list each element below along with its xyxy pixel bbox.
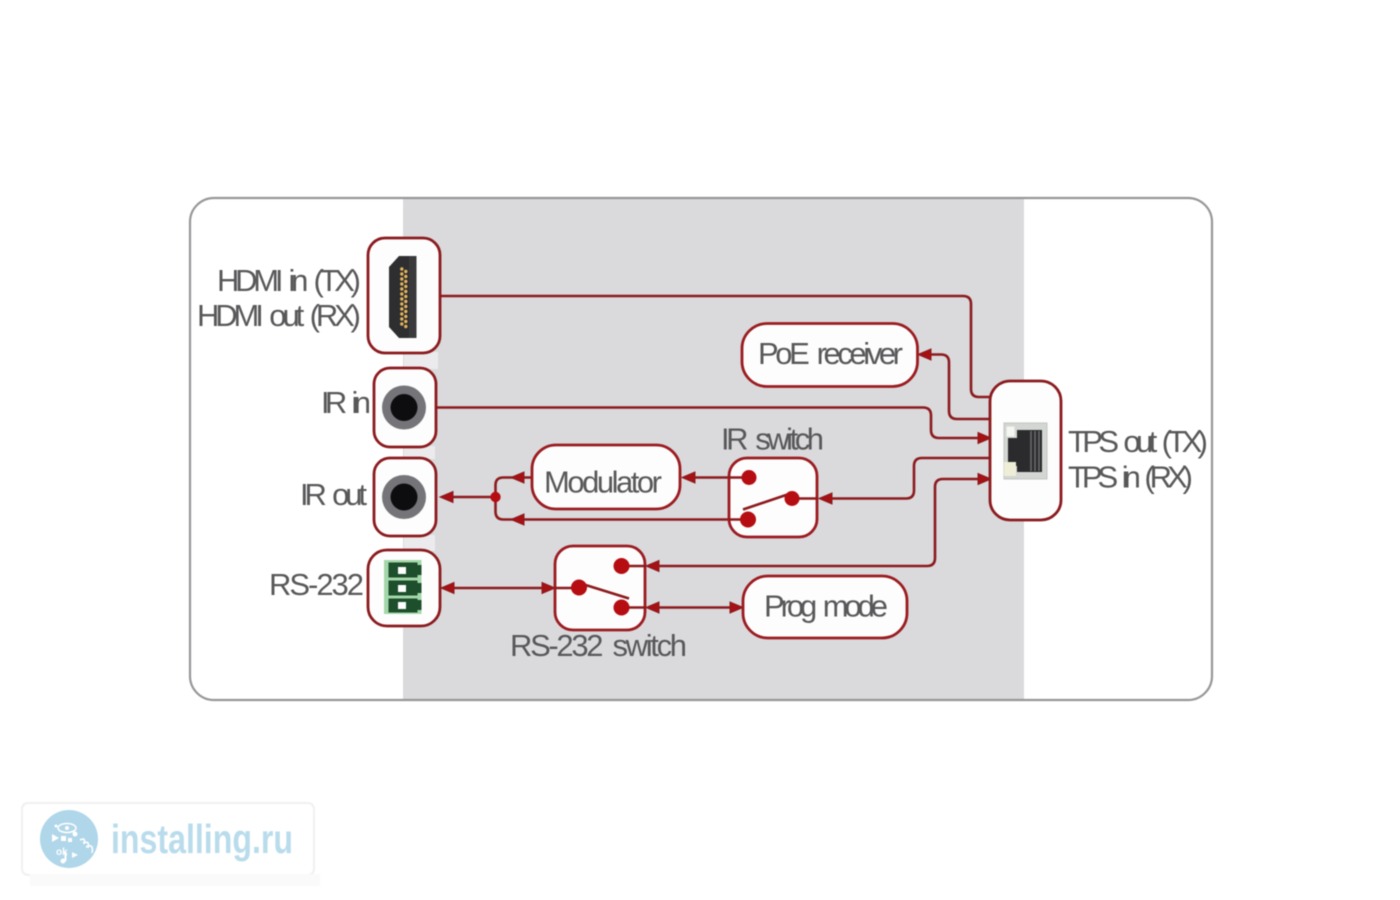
- svg-text:TPS in (RX): TPS in (RX): [1068, 460, 1193, 495]
- svg-text:Prog mode: Prog mode: [764, 589, 888, 624]
- svg-text:RS-232 switch: RS-232 switch: [510, 628, 687, 663]
- svg-text:ok: ok: [56, 847, 68, 858]
- svg-text:Modulator: Modulator: [544, 465, 662, 500]
- svg-text:IR out: IR out: [300, 477, 367, 512]
- svg-text:RS-232: RS-232: [269, 567, 364, 602]
- svg-text:PoE receiver: PoE receiver: [758, 336, 903, 371]
- svg-text:IR switch: IR switch: [721, 422, 824, 457]
- svg-text:HDMI in (TX): HDMI in (TX): [217, 263, 361, 298]
- svg-text:IR in: IR in: [321, 385, 371, 420]
- svg-text:HDMI out (RX): HDMI out (RX): [197, 298, 361, 333]
- svg-text:installing.ru: installing.ru: [111, 816, 293, 862]
- svg-text:TPS out (TX): TPS out (TX): [1068, 424, 1208, 459]
